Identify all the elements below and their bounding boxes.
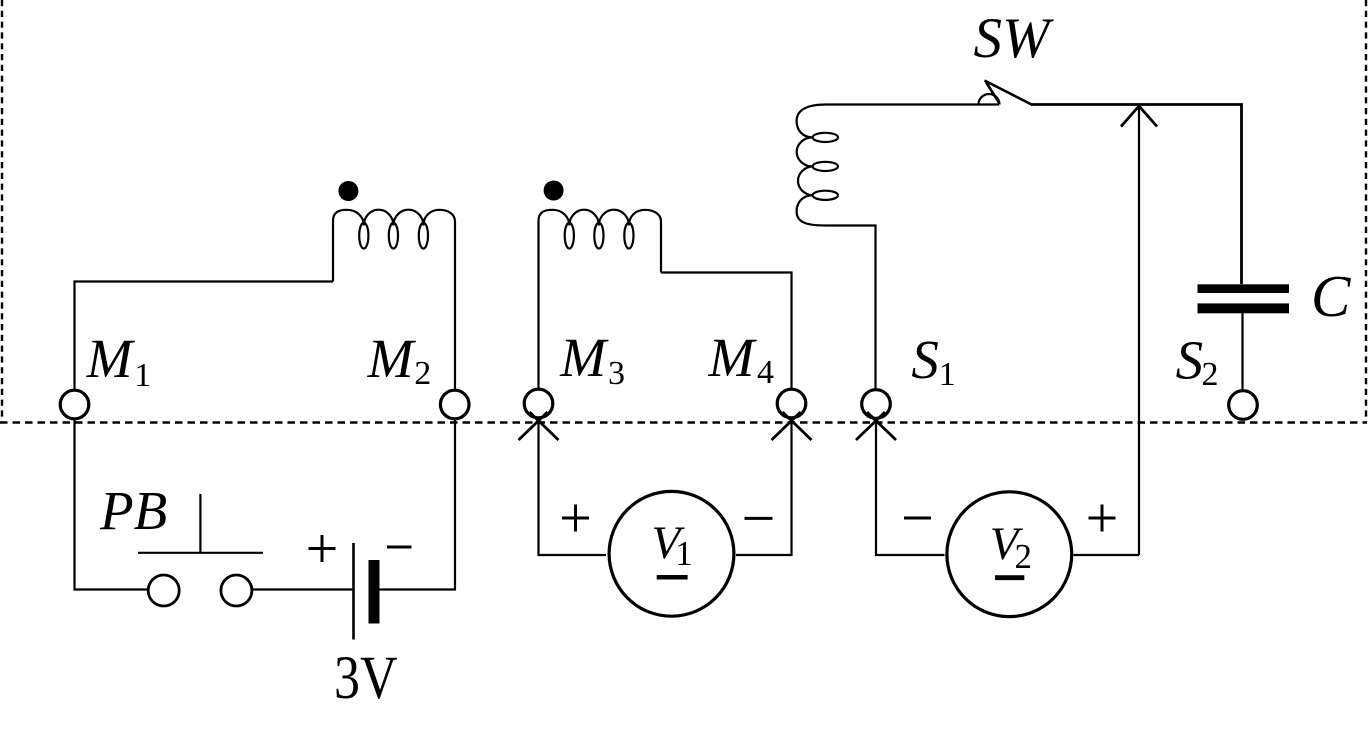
polarity dot left coil bbox=[338, 181, 358, 201]
svg-text:C: C bbox=[1311, 263, 1351, 329]
svg-text:M: M bbox=[86, 328, 136, 389]
terminal M1 bbox=[60, 390, 89, 419]
terminal S2 bbox=[1229, 391, 1258, 420]
battery minus sign bbox=[387, 546, 412, 549]
svg-text:3V: 3V bbox=[334, 645, 398, 712]
vertical inductor coil top wire and switch feed bbox=[797, 105, 999, 391]
svg-text:1: 1 bbox=[134, 357, 151, 394]
voltmeter V2 body bbox=[947, 492, 1072, 617]
dashed boundary right bbox=[1365, 0, 1367, 422]
vertical coil loop 3 bbox=[813, 191, 838, 200]
coil M3 loop 2 bbox=[594, 223, 603, 249]
svg-text:2: 2 bbox=[414, 355, 431, 392]
coil M2 loop 3 bbox=[419, 223, 428, 249]
svg-text:1: 1 bbox=[939, 356, 956, 393]
wire coil to M4 bbox=[661, 273, 792, 390]
V2 minus sign bbox=[904, 517, 931, 520]
wire M1 up and across bbox=[75, 282, 334, 391]
svg-text:PB: PB bbox=[99, 480, 167, 541]
vertical coil loop 1 bbox=[813, 133, 838, 142]
wire V1 to M4 bbox=[736, 418, 792, 556]
terminal M2 bbox=[440, 390, 469, 419]
svg-text:M: M bbox=[367, 328, 417, 389]
battery plus sign bbox=[309, 535, 336, 562]
coil M3 loop 3 bbox=[624, 223, 633, 249]
vertical arrow line bbox=[1138, 107, 1140, 555]
V2 plus sign bbox=[1089, 505, 1116, 532]
polarity dot middle coil bbox=[544, 181, 564, 201]
wire M3 down to voltmeter V1 bbox=[539, 418, 607, 555]
clip X under M3 bbox=[519, 412, 559, 440]
capacitor C top plate bbox=[1198, 284, 1290, 293]
wire capacitor to S2 bbox=[1241, 313, 1243, 391]
svg-text:M: M bbox=[708, 327, 758, 388]
svg-text:1: 1 bbox=[675, 534, 693, 573]
svg-text:4: 4 bbox=[757, 354, 774, 391]
wire PB to battery bbox=[252, 588, 352, 590]
V1 minus sign bbox=[745, 517, 773, 520]
svg-text:3: 3 bbox=[608, 355, 625, 392]
push button PB left contact bbox=[148, 575, 179, 606]
terminal M4 bbox=[777, 389, 806, 418]
coil M2 loop 2 bbox=[389, 223, 398, 249]
switch SW hinge arc bbox=[979, 94, 1000, 105]
svg-text:S: S bbox=[911, 329, 939, 390]
dashed boundary horizontal bbox=[0, 421, 1367, 423]
switch SW barb bbox=[986, 82, 1000, 104]
V1 plus sign bbox=[562, 505, 589, 532]
wire V2 to arrow line bbox=[1074, 554, 1140, 556]
svg-text:M: M bbox=[559, 327, 609, 388]
battery negative plate bbox=[369, 560, 380, 624]
terminal S1 bbox=[862, 390, 891, 419]
terminal M3 bbox=[524, 389, 553, 418]
arrowhead bbox=[1121, 106, 1157, 127]
wire battery to M2 bbox=[380, 419, 456, 590]
voltmeter V1 body bbox=[609, 491, 734, 616]
push button stem bbox=[199, 494, 201, 553]
svg-text:2: 2 bbox=[1015, 537, 1033, 576]
push button PB right contact bbox=[221, 575, 252, 606]
voltmeter V1 underline bbox=[657, 575, 688, 580]
push button bar bbox=[138, 552, 263, 554]
vertical coil loop 2 bbox=[813, 162, 838, 171]
clip X under M4 bbox=[772, 412, 812, 440]
svg-text:2: 2 bbox=[1202, 356, 1219, 393]
dashed boundary left bbox=[1, 0, 3, 422]
inductor coil M3 bbox=[539, 210, 662, 390]
coil M2 loop 1 bbox=[359, 223, 368, 249]
clip X under S1 bbox=[856, 412, 896, 440]
svg-text:S: S bbox=[1176, 329, 1204, 390]
wire S1 down to voltmeter V2 bbox=[876, 418, 945, 555]
voltmeter V2 underline bbox=[995, 575, 1024, 580]
capacitor C bottom plate bbox=[1198, 303, 1290, 313]
switch SW blade bbox=[985, 81, 1032, 105]
inductor coil M1-M2 bbox=[333, 210, 455, 391]
battery positive plate bbox=[352, 543, 355, 640]
coil M3 loop 1 bbox=[565, 223, 574, 249]
wire M1 down to push button bbox=[75, 419, 149, 590]
svg-text:SW: SW bbox=[974, 7, 1055, 70]
wire switch to capacitor bbox=[1031, 105, 1242, 285]
